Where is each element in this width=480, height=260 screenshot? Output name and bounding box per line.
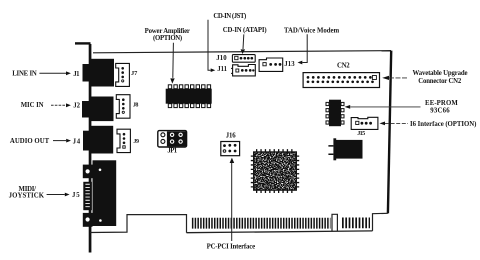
connector J10 <box>232 55 255 63</box>
svg-text:93C66: 93C66 <box>430 107 450 114</box>
svg-text:J2: J2 <box>73 103 80 110</box>
svg-text:PC-PCI Interface: PC-PCI Interface <box>207 243 256 250</box>
svg-text:J8: J8 <box>133 103 139 109</box>
svg-text:J15: J15 <box>357 130 365 137</box>
svg-text:J4: J4 <box>73 139 81 146</box>
jack J2 (MIC IN) <box>90 97 114 122</box>
power amplifier IC <box>166 89 212 104</box>
connector J13 <box>259 58 283 71</box>
jumper block JP1 <box>158 131 187 147</box>
svg-text:J10: J10 <box>216 55 227 62</box>
svg-text:Wavetable Upgrade: Wavetable Upgrade <box>413 70 468 77</box>
PCB right edge <box>388 51 391 214</box>
connector J9 <box>117 129 130 152</box>
svg-text:J9: J9 <box>133 139 139 145</box>
svg-text:CD-IN (ATAPI): CD-IN (ATAPI) <box>223 27 267 34</box>
svg-text:J13: J13 <box>284 61 295 68</box>
jack J1 (LINE IN) <box>90 59 114 87</box>
connector J16 <box>221 142 240 156</box>
PCI key notch <box>332 214 337 231</box>
jack J4 (AUDIO OUT) <box>90 126 114 154</box>
QFP chip U1 <box>256 149 295 152</box>
svg-text:JOYSTICK: JOYSTICK <box>9 192 45 199</box>
svg-text:J7: J7 <box>131 70 138 77</box>
PCI fingers short section <box>342 217 370 228</box>
EE-PROM IC 93C66 <box>329 100 341 127</box>
bracket top tab <box>75 42 91 44</box>
PCB top edge <box>93 51 391 53</box>
PCB bottom edge under fingers <box>187 231 373 233</box>
bracket <box>89 44 92 253</box>
svg-text:(OPTION): (OPTION) <box>153 35 182 42</box>
svg-text:I6 Interface (OPTION): I6 Interface (OPTION) <box>410 121 476 128</box>
PCB bottom edge left <box>90 215 187 233</box>
connector J11 <box>233 65 256 76</box>
svg-text:AUDIO OUT: AUDIO OUT <box>10 138 50 145</box>
PCI fingers long section <box>192 218 331 229</box>
svg-text:JP1: JP1 <box>167 147 177 154</box>
connector J15 <box>351 117 378 129</box>
svg-text:J11: J11 <box>217 66 227 73</box>
svg-text:J1: J1 <box>73 71 80 78</box>
svg-text:J5: J5 <box>72 192 80 199</box>
connector J8 <box>116 95 130 119</box>
svg-text:Power Amplifier: Power Amplifier <box>145 28 190 35</box>
svg-text:EE-PROM: EE-PROM <box>425 100 458 107</box>
svg-text:Connector CN2: Connector CN2 <box>418 78 462 85</box>
header CN2 <box>303 73 379 88</box>
PCB bottom-right step <box>373 213 388 231</box>
connector J5 DB15 (MIDI/JOYSTICK) <box>93 160 117 226</box>
svg-text:MIC IN: MIC IN <box>21 102 44 109</box>
label PC-PCI Interface with leader to J16 <box>231 163 233 241</box>
svg-text:LINE IN: LINE IN <box>12 70 37 77</box>
svg-text:CN2: CN2 <box>337 63 350 70</box>
inductor component below J15 <box>336 140 363 159</box>
svg-text:J16: J16 <box>226 133 236 140</box>
connector J7 <box>116 63 130 86</box>
svg-text:CD-IN (JST): CD-IN (JST) <box>213 13 246 20</box>
svg-text:TAD/Voice Modem: TAD/Voice Modem <box>284 28 340 35</box>
